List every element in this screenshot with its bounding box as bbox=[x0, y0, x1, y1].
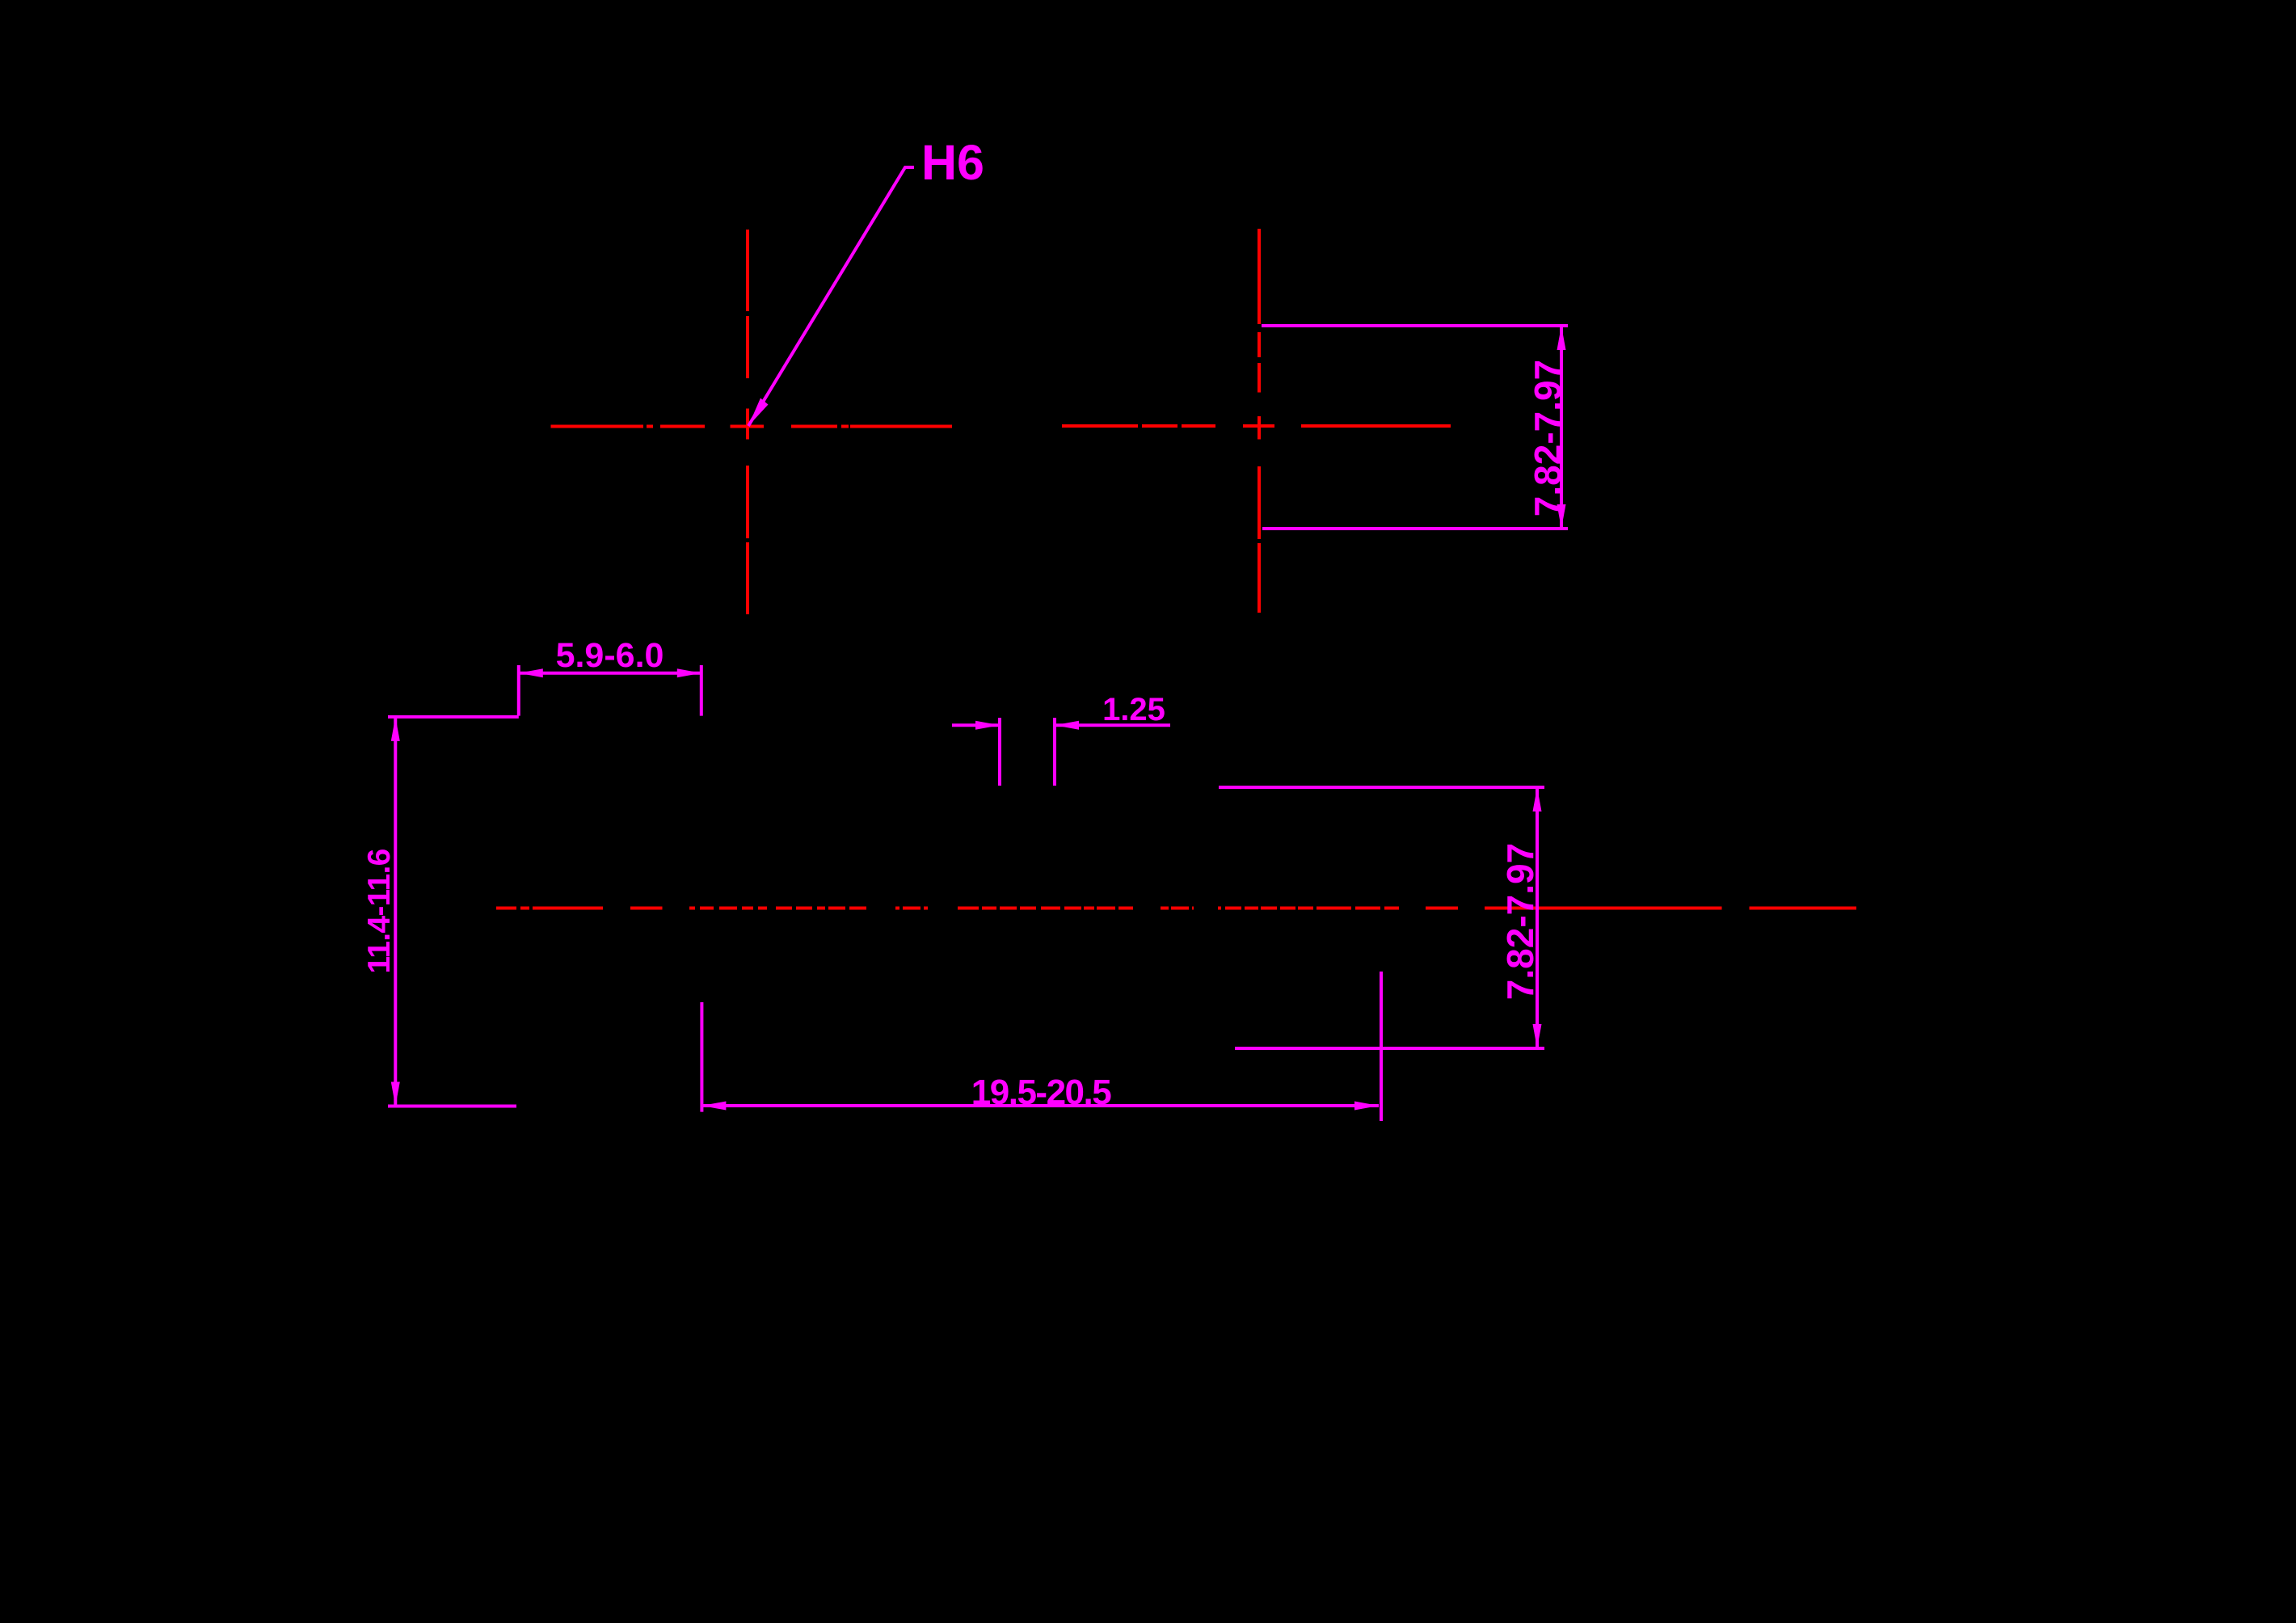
dimension 11.4-11.6: extension line top bbox=[388, 715, 519, 719]
dimension 1.25: extension line left bbox=[998, 718, 1001, 786]
dimension 11.4-11.6: extension line bottom bbox=[388, 1105, 516, 1108]
dimension 1.25: arrowhead pointing left bbox=[1055, 721, 1079, 730]
svg-text:7.82-7.97: 7.82-7.97 bbox=[1527, 360, 1569, 516]
dimension 5.9-6.0: extension line right bbox=[700, 665, 703, 716]
dimension 7.82-7.97 lower: arrowhead down bbox=[1533, 1024, 1542, 1048]
dimension 5.9-6.0: extension line left bbox=[517, 665, 520, 716]
svg-text:H6: H6 bbox=[921, 135, 984, 190]
svg-text:5.9-6.0: 5.9-6.0 bbox=[556, 636, 664, 675]
dimension 19.5-20.5: dimension line bbox=[701, 1104, 1379, 1107]
centerline upper-left hole vertical bbox=[746, 230, 749, 614]
dimension 7.82-7.97 upper: extension line bottom bbox=[1262, 527, 1568, 530]
dimension 7.82-7.97 upper: dimension line bbox=[1560, 326, 1563, 529]
dimension 19.5-20.5: arrowhead right bbox=[1354, 1102, 1379, 1111]
svg-text:19.5-20.5: 19.5-20.5 bbox=[971, 1073, 1111, 1112]
svg-text:1.25: 1.25 bbox=[1102, 692, 1165, 727]
dimension 7.82-7.97 upper: extension line top bbox=[1262, 324, 1568, 327]
dimension 11.4-11.6: dimension line bbox=[394, 717, 397, 1107]
dimension 1.25: extension line right bbox=[1053, 718, 1056, 786]
dimension 7.82-7.97 lower: extension line bottom bbox=[1235, 1047, 1544, 1050]
leader H6 arrowhead bbox=[748, 398, 769, 427]
dimension 7.82-7.97 lower: extension line top bbox=[1219, 786, 1544, 789]
dimension 19.5-20.5: arrowhead left bbox=[701, 1102, 726, 1111]
dimension 5.9-6.0: dimension line bbox=[519, 672, 701, 675]
dimension 7.82-7.97 lower: dimension line bbox=[1536, 787, 1539, 1048]
svg-text:7.82-7.97: 7.82-7.97 bbox=[1499, 843, 1541, 1000]
dimension 5.9-6.0: arrowhead right bbox=[677, 668, 701, 677]
dimension 19.5-20.5: extension line left bbox=[700, 1002, 703, 1112]
dimension 7.82-7.97 lower: arrowhead up bbox=[1533, 787, 1542, 811]
dimension 7.82-7.97 upper: arrowhead down bbox=[1557, 504, 1566, 529]
centerline lower view axis bbox=[496, 907, 1856, 910]
svg-text:11.4-11.6: 11.4-11.6 bbox=[362, 849, 397, 973]
dimension 1.25: right lead-in line bbox=[1055, 723, 1170, 727]
dimension 5.9-6.0: arrowhead left bbox=[519, 668, 543, 677]
centerline upper-right hole horizontal bbox=[1062, 424, 1451, 428]
dimension 1.25: arrowhead pointing right bbox=[975, 721, 1000, 730]
dimension 7.82-7.97 upper: arrowhead up bbox=[1557, 326, 1566, 350]
dimension 1.25: left lead-in line bbox=[952, 723, 1000, 727]
centerline upper-left hole horizontal bbox=[551, 425, 953, 428]
leader H6 bbox=[748, 167, 914, 426]
dimension 11.4-11.6: arrowhead down bbox=[391, 1082, 400, 1107]
dimension 11.4-11.6: arrowhead up bbox=[391, 717, 400, 741]
dimension 19.5-20.5: extension line right bbox=[1380, 972, 1383, 1121]
centerline upper-right hole vertical bbox=[1258, 229, 1261, 613]
